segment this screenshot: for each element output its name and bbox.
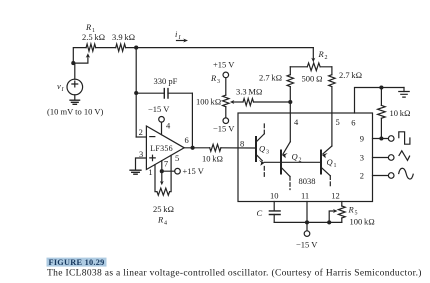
potentiometer R5 100k — [338, 206, 345, 218]
wire: op-amp pin 3 input to ground — [136, 158, 147, 170]
resistor 10k (output) — [210, 144, 221, 151]
label vI — [57, 81, 65, 93]
svg-text:7: 7 — [164, 159, 168, 169]
node: junction dot R5 wiper rail — [327, 220, 331, 224]
voltage source vI — [67, 63, 83, 95]
svg-text:v: v — [57, 81, 61, 91]
svg-text:2: 2 — [360, 170, 364, 180]
wire: pin 12 down to R5 — [341, 202, 343, 207]
resistor 3.3M — [243, 99, 254, 106]
potentiometer R4 25k — [157, 188, 170, 195]
label R2 — [318, 49, 328, 61]
svg-text:FIGURE 10.29: FIGURE 10.29 — [49, 258, 105, 267]
capacitor C — [269, 211, 280, 215]
svg-text:−15 V: −15 V — [213, 124, 235, 134]
svg-text:Q: Q — [259, 144, 265, 154]
svg-text:C: C — [257, 208, 263, 218]
label R4 — [157, 215, 167, 227]
svg-text:10 kΩ: 10 kΩ — [390, 108, 411, 118]
svg-text:2: 2 — [299, 158, 302, 164]
wire: Q3 emitter dashed internal — [263, 167, 265, 177]
wire: R2 wiper from top rail — [311, 48, 315, 63]
label R3 — [210, 73, 220, 85]
transistor Q2 — [281, 142, 290, 190]
wire: right leg R2 to 2.7k — [331, 67, 333, 75]
IC U2 ICL8038 box — [238, 113, 373, 202]
svg-text:R: R — [348, 205, 355, 215]
svg-text:3: 3 — [217, 79, 220, 85]
wire: op-amp pin 1 down to R4 — [155, 165, 157, 192]
label R1 — [85, 22, 95, 34]
svg-text:R: R — [210, 73, 217, 83]
square wave symbol — [399, 132, 410, 144]
potentiometer R2 500 — [290, 63, 332, 71]
label Q2 — [292, 152, 302, 164]
svg-text:3: 3 — [266, 150, 269, 156]
svg-text:2.7 kΩ: 2.7 kΩ — [339, 70, 362, 80]
transistor Q3 — [256, 122, 265, 165]
wire: R5 wiper to rail — [329, 209, 337, 222]
svg-text:2.7 kΩ: 2.7 kΩ — [259, 73, 282, 83]
wire: feedback down to output node — [191, 93, 193, 148]
wire: pin 2 to terminal — [373, 175, 389, 177]
svg-text:(10 mV to 10 V): (10 mV to 10 V) — [47, 107, 104, 117]
svg-text:6: 6 — [185, 135, 189, 145]
svg-text:5: 5 — [336, 117, 340, 127]
wire: pin 9 to terminal — [373, 138, 389, 140]
current arrow iI — [175, 29, 188, 43]
svg-text:I: I — [61, 87, 65, 93]
svg-text:5: 5 — [175, 153, 179, 163]
wire: R3 bottom to -15V — [225, 107, 227, 118]
node: junction dot rail/10k — [379, 85, 383, 89]
svg-text:100 kΩ: 100 kΩ — [350, 217, 375, 227]
wire: op-amp pin 2 input — [136, 136, 146, 138]
wire: Q3 emitter to Q1/Q2 base rail — [264, 161, 321, 163]
svg-text:R: R — [85, 22, 92, 32]
wire: 10k right down to pin 9 node — [380, 118, 382, 138]
terminal -15V (R3 bottom) — [223, 118, 229, 124]
wire: left leg R2 to 2.7k — [289, 67, 291, 75]
potentiometer R3 100k — [223, 95, 229, 107]
node: junction dot 3.3M / pin 4 — [288, 100, 292, 104]
svg-text:2: 2 — [139, 127, 143, 137]
wire: capacitor to bottom rail — [273, 215, 275, 223]
resistor 10k right — [378, 105, 386, 118]
node: junction dot source/wiper — [71, 61, 75, 65]
op-amp U1 LF356 — [146, 126, 184, 170]
node: output junction dot — [191, 146, 195, 150]
svg-text:10: 10 — [270, 191, 279, 201]
svg-text:3: 3 — [360, 152, 364, 162]
svg-text:Q: Q — [292, 152, 298, 162]
svg-text:4: 4 — [294, 117, 299, 127]
terminal +15V (R3 top) — [223, 72, 229, 95]
svg-text:−15 V: −15 V — [148, 104, 170, 114]
svg-text:−15 V: −15 V — [296, 240, 318, 250]
svg-text:4: 4 — [166, 120, 171, 130]
wire: rail down to 10k right — [380, 88, 382, 106]
potentiometer R1 2.5k zigzag — [86, 44, 96, 51]
wire: op-amp output to 10k and pin 8 — [184, 147, 256, 149]
svg-text:11: 11 — [301, 191, 309, 201]
svg-text:R: R — [157, 215, 164, 225]
label Q3 — [259, 144, 269, 156]
svg-text:+15 V: +15 V — [213, 60, 235, 70]
svg-text:Q: Q — [327, 157, 333, 167]
wire: pin 6 up and right to ground rail — [355, 88, 405, 114]
wire: op-amp pin 7 to +15V and R4 wiper — [160, 161, 175, 186]
terminal pin 3 — [388, 155, 394, 161]
wire: pin 11 down to -15V — [306, 202, 308, 231]
svg-text:3.3 MΩ: 3.3 MΩ — [236, 87, 262, 97]
sine wave symbol — [399, 168, 414, 179]
svg-text:100 kΩ: 100 kΩ — [196, 97, 221, 107]
svg-text:8: 8 — [240, 139, 244, 149]
svg-text:4: 4 — [164, 221, 167, 227]
node: junction dot pin 9 — [379, 136, 383, 140]
svg-text:2.5 kΩ: 2.5 kΩ — [82, 32, 105, 42]
wire: R1 wiper tie (left terminal to wiper) — [73, 53, 90, 63]
wire: 2.7k left down to pin 4 — [289, 87, 291, 113]
wire: pin 3 to terminal — [373, 157, 389, 159]
label R5 — [348, 205, 358, 217]
wire: bottom rail — [274, 221, 342, 223]
wire: pin 5 into Q1 emitter — [331, 113, 333, 146]
svg-text:+15 V: +15 V — [183, 166, 205, 176]
svg-text:10 kΩ: 10 kΩ — [202, 154, 223, 164]
wire: R5 bottom to rail — [341, 218, 343, 222]
wire: 3.3M to pin-4 column — [254, 101, 291, 103]
svg-text:500 Ω: 500 Ω — [302, 74, 323, 84]
svg-text:1: 1 — [334, 163, 337, 169]
svg-text:9: 9 — [360, 133, 364, 143]
svg-text:R: R — [318, 49, 325, 59]
svg-text:3.9 kΩ: 3.9 kΩ — [112, 32, 135, 42]
svg-text:6: 6 — [351, 117, 355, 127]
terminal pin 2 — [388, 173, 394, 179]
resistor 3.9k zigzag — [116, 44, 126, 51]
node: pin7 junction dot — [160, 169, 164, 173]
ground: op-amp pin 3 — [130, 170, 141, 174]
transistor Q1 — [321, 146, 332, 188]
terminal +15V (op-amp) — [175, 168, 181, 174]
terminal -15V (bottom) — [304, 231, 310, 237]
capacitor 330 pF — [136, 89, 192, 98]
wire: top rail from source loop to R2 wiper bend — [73, 48, 313, 64]
svg-text:The ICL8038 as a linear voltag: The ICL8038 as a linear voltage-controll… — [47, 268, 422, 279]
ground: top right rail — [399, 88, 409, 98]
svg-text:330 pF: 330 pF — [154, 76, 178, 86]
wire: pin 10 down to capacitor C — [273, 202, 275, 211]
svg-text:LF356: LF356 — [150, 144, 173, 153]
svg-text:3: 3 — [139, 149, 143, 159]
svg-text:25 kΩ: 25 kΩ — [153, 204, 174, 214]
svg-text:12: 12 — [331, 191, 340, 201]
ground: below source — [70, 95, 80, 105]
resistor 2.7k right — [329, 75, 335, 87]
caption FIGURE 10.29 — [47, 258, 107, 267]
wire: R3 wiper to 3.3M — [230, 100, 243, 104]
wire: pin 4 into Q2 emitter — [289, 113, 291, 142]
svg-text:1: 1 — [148, 167, 152, 177]
svg-text:8038: 8038 — [299, 176, 316, 186]
triangle wave symbol — [399, 151, 410, 161]
label Q1 — [327, 157, 337, 169]
wire: input line down to op-amp pin 2 — [135, 48, 137, 137]
node: junction dot pin 11 rail — [305, 220, 309, 224]
terminal -15V op-amp pin 4 — [159, 117, 165, 135]
resistor 2.7k left — [287, 75, 293, 87]
wire: 2.7k right down to pin 5 — [331, 87, 333, 113]
svg-text:2: 2 — [325, 55, 328, 61]
terminal pin 9 — [388, 136, 394, 142]
node: junction dot R1/input — [134, 46, 138, 50]
wire: op-amp pin 5 down to R4 — [170, 155, 172, 191]
node: junction dot feedback tap — [134, 91, 138, 95]
